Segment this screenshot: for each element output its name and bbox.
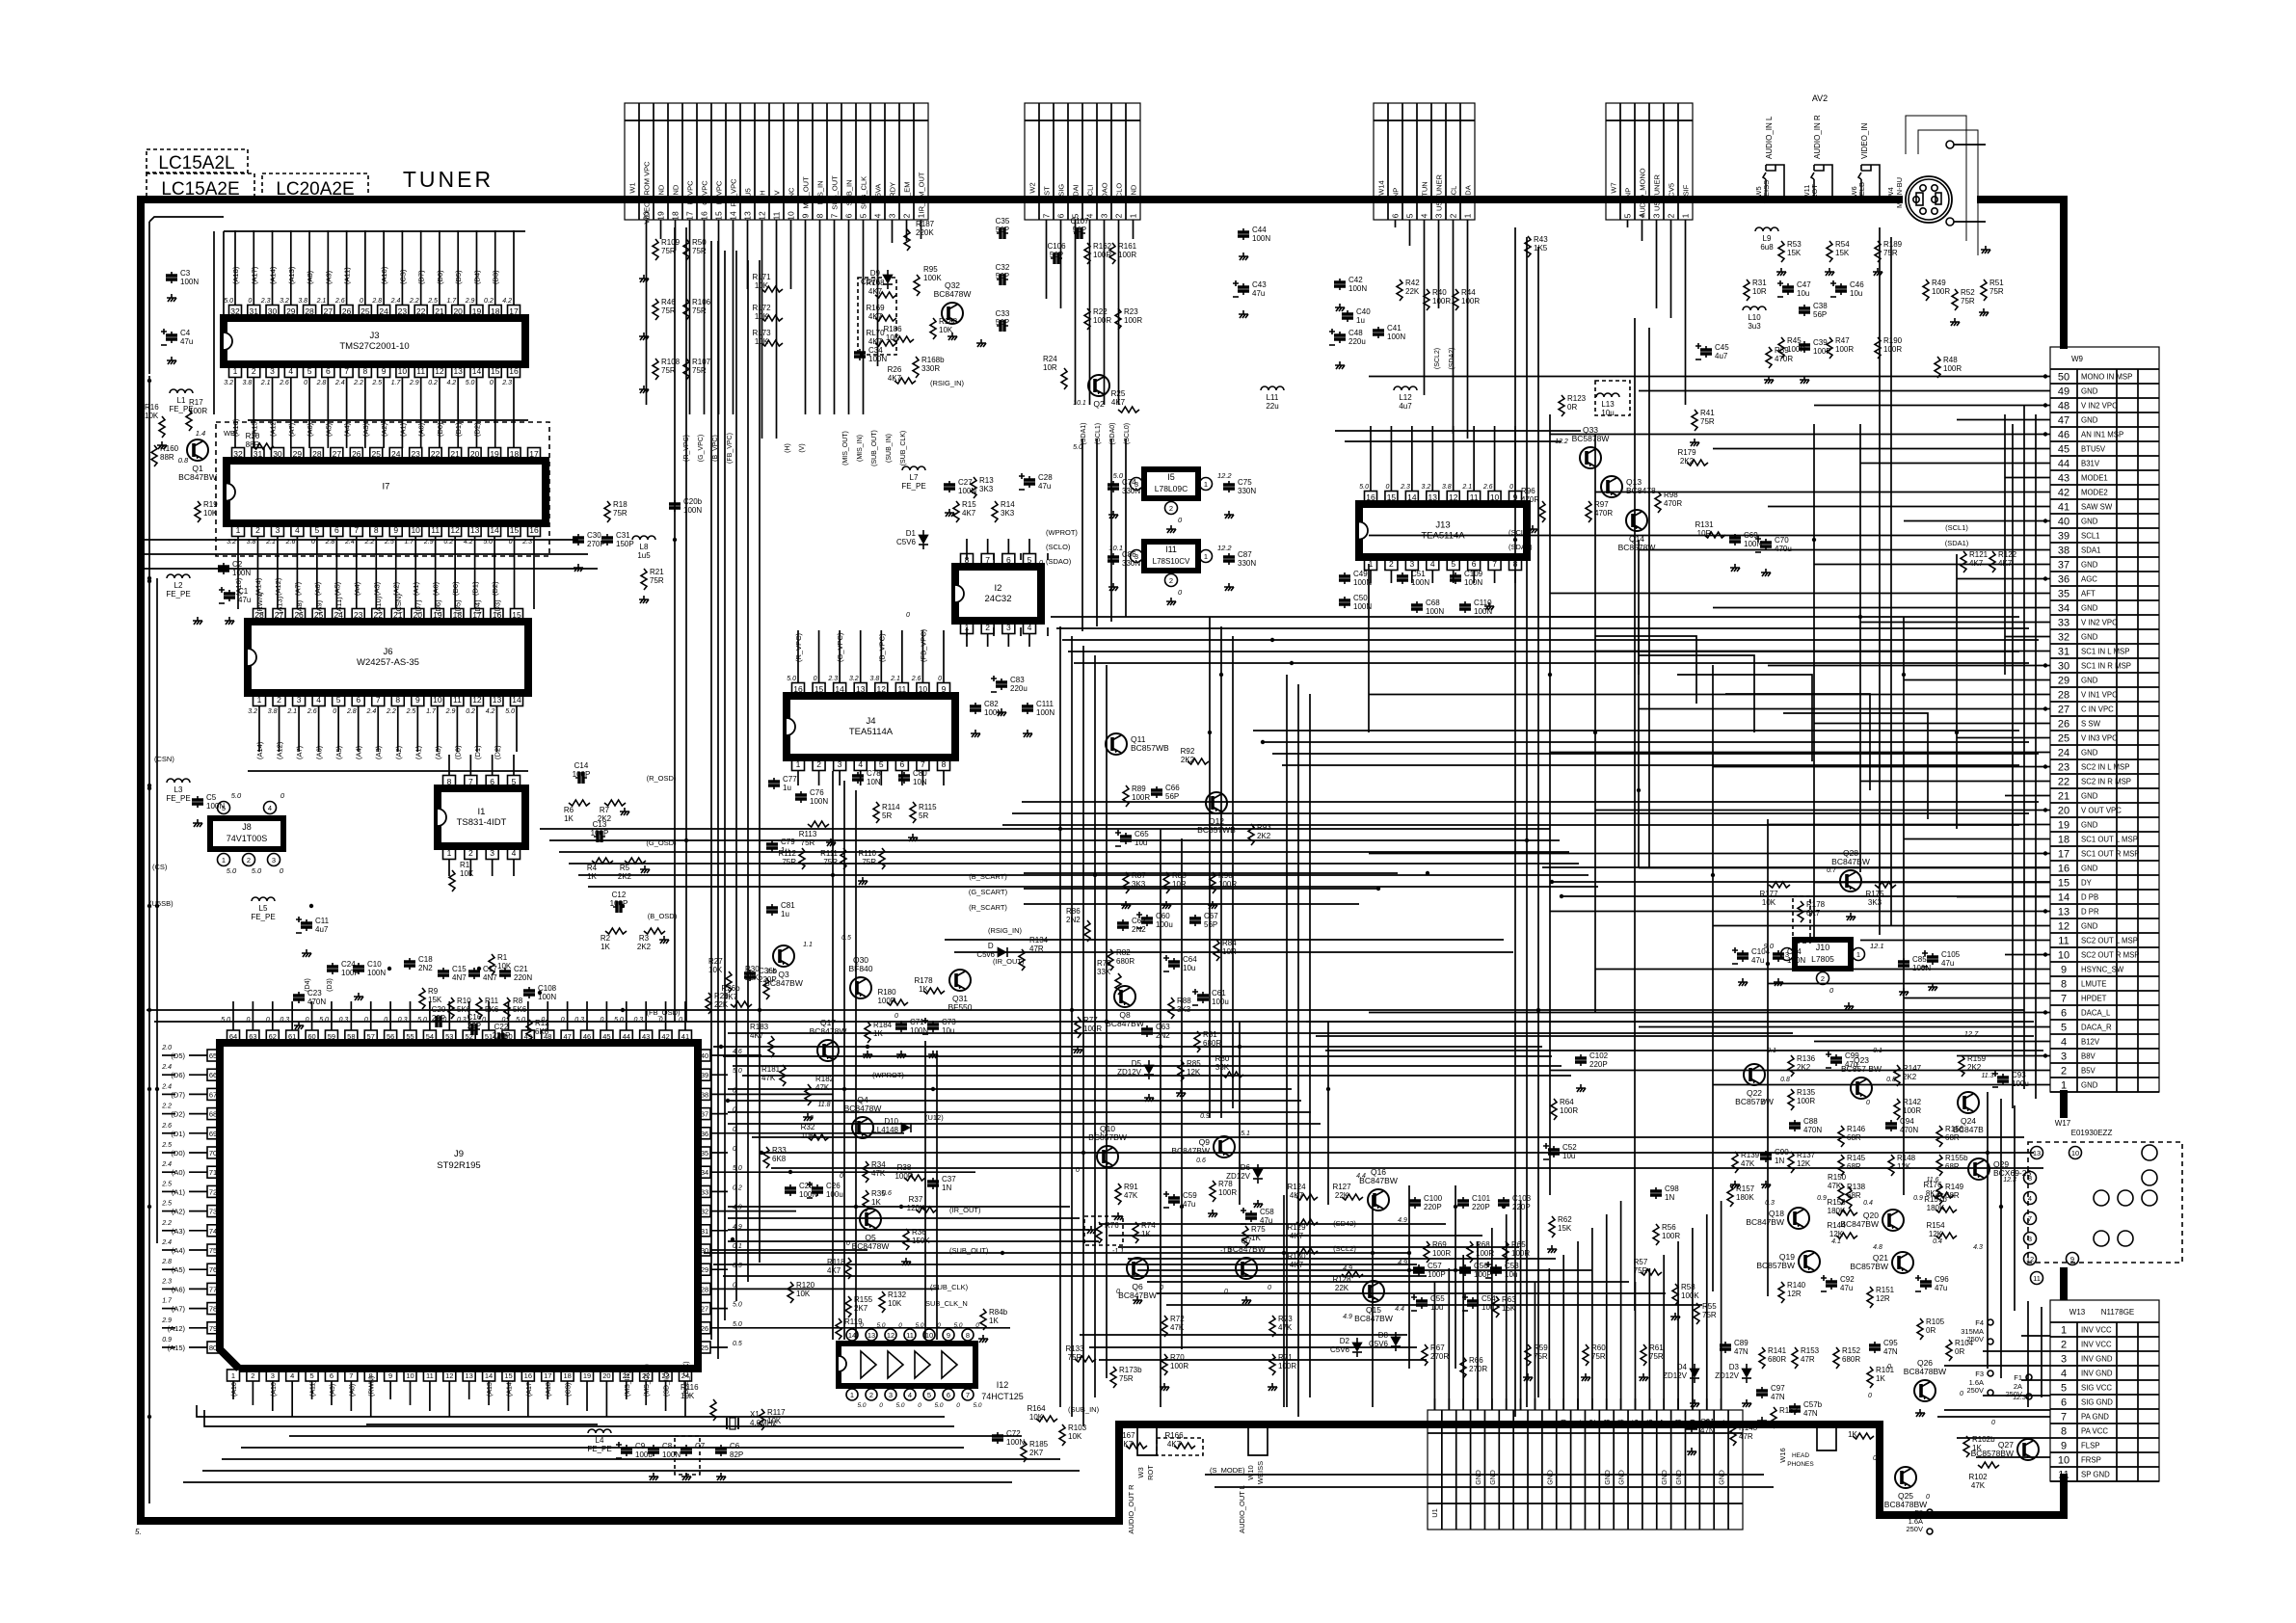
svg-text:L4: L4 <box>596 1436 604 1445</box>
capacitor C44 <box>1242 228 1244 240</box>
svg-text:R167: R167 <box>1116 1431 1135 1440</box>
svg-text:2.6: 2.6 <box>161 1123 172 1130</box>
ground <box>1950 318 1960 326</box>
ground <box>681 1473 691 1480</box>
ground <box>1176 1089 1186 1097</box>
svg-text:J9: J9 <box>454 1149 464 1159</box>
svg-text:ZD12V: ZD12V <box>1663 1371 1688 1380</box>
svg-text:4: 4 <box>1420 213 1429 218</box>
svg-text:0.9: 0.9 <box>1200 1113 1210 1120</box>
svg-text:10: 10 <box>2071 1149 2079 1157</box>
svg-text:33K: 33K <box>1215 1063 1230 1072</box>
svg-text:13: 13 <box>2033 1149 2041 1157</box>
svg-text:WEISS: WEISS <box>1256 1461 1265 1484</box>
svg-text:(MS_OUT): (MS_OUT) <box>644 1364 651 1397</box>
wire W13 feeds <box>1937 1416 2050 1418</box>
resistor R80 <box>1222 1072 1243 1078</box>
ground <box>639 333 649 340</box>
svg-text:R21: R21 <box>650 568 664 576</box>
resistor R42 <box>1397 279 1402 301</box>
ground <box>1730 564 1740 572</box>
svg-text:100R: 100R <box>1432 1249 1451 1258</box>
svg-text:4: 4 <box>290 1371 294 1380</box>
svg-text:2.8: 2.8 <box>346 708 357 715</box>
capacitor C111 <box>1027 703 1028 714</box>
svg-text:10u: 10u <box>1797 289 1809 298</box>
capacitor C36b <box>749 970 751 981</box>
svg-text:WEISS: WEISS <box>1762 180 1771 203</box>
svg-text:32: 32 <box>2058 632 2069 644</box>
transistor Q5 <box>860 1209 881 1230</box>
connector W7 <box>1606 103 1693 220</box>
svg-text:11: 11 <box>416 366 425 376</box>
resistor R145 <box>1838 1155 1844 1176</box>
svg-text:10K: 10K <box>888 1299 902 1308</box>
svg-text:(A13): (A13) <box>487 1380 494 1397</box>
svg-text:5.0: 5.0 <box>1359 484 1369 491</box>
resistor R146 <box>1838 1126 1844 1147</box>
resistor R147 <box>1894 1065 1900 1086</box>
svg-text:53: 53 <box>445 1032 453 1041</box>
svg-text:17: 17 <box>529 449 539 459</box>
capacitor C77 <box>773 778 775 789</box>
svg-text:100u: 100u <box>826 1190 843 1199</box>
IC I5 L78L09C <box>1144 469 1198 498</box>
inductor L3 <box>167 779 190 783</box>
svg-text:C59: C59 <box>1183 1191 1197 1200</box>
svg-text:2K2: 2K2 <box>637 943 652 951</box>
svg-text:GND: GND <box>2081 387 2098 396</box>
svg-text:(A7): (A7) <box>295 745 304 759</box>
svg-text:(SDA1): (SDA1) <box>1508 543 1533 551</box>
ground <box>1023 730 1032 737</box>
svg-text:26: 26 <box>701 1324 708 1333</box>
svg-text:MRDY: MRDY <box>889 182 897 203</box>
svg-text:2: 2 <box>2061 1066 2067 1078</box>
svg-text:SUB_OUT: SUB_OUT <box>831 175 840 210</box>
svg-text:GND: GND <box>672 184 681 200</box>
svg-text:0.5: 0.5 <box>733 1341 742 1347</box>
transistor Q33 <box>1580 447 1601 468</box>
svg-text:C12: C12 <box>612 891 627 899</box>
capacitor C65 <box>1125 833 1127 844</box>
svg-text:34: 34 <box>701 1168 708 1177</box>
resistor R30 <box>763 978 769 999</box>
wire center lattice verticals <box>1239 1022 1241 1205</box>
capacitor C80 <box>903 772 905 784</box>
svg-text:I12: I12 <box>997 1380 1009 1390</box>
svg-text:C94: C94 <box>1900 1117 1914 1126</box>
svg-text:36: 36 <box>701 1130 708 1138</box>
svg-text:GND: GND <box>2081 922 2098 931</box>
svg-text:2K2: 2K2 <box>618 872 632 881</box>
svg-text:5: 5 <box>1623 213 1633 218</box>
svg-text:16: 16 <box>1645 1419 1654 1427</box>
capacitor C50 <box>1344 597 1346 608</box>
capacitor C16 <box>468 1028 480 1030</box>
svg-text:(A12): (A12) <box>274 577 282 596</box>
svg-text:0: 0 <box>1386 484 1390 491</box>
svg-text:100N: 100N <box>1411 578 1429 587</box>
svg-text:C57b: C57b <box>1803 1400 1823 1409</box>
resistor R167 <box>1126 1443 1147 1449</box>
svg-text:R113: R113 <box>799 830 817 838</box>
svg-text:(A4): (A4) <box>355 745 363 759</box>
ground <box>1915 1409 1925 1417</box>
svg-text:24: 24 <box>391 449 401 459</box>
capacitor C87 <box>1228 553 1230 565</box>
capacitor C56 <box>1464 1264 1466 1276</box>
resistor R157 <box>1727 1185 1733 1207</box>
svg-text:75R: 75R <box>661 306 676 315</box>
svg-text:72: 72 <box>209 1187 217 1196</box>
svg-text:78: 78 <box>209 1305 217 1314</box>
svg-text:39: 39 <box>2058 531 2069 543</box>
svg-text:(D3): (D3) <box>327 978 334 992</box>
svg-text:65: 65 <box>209 1051 217 1060</box>
svg-text:R62: R62 <box>1558 1215 1572 1224</box>
resistor R185 <box>1021 1441 1027 1462</box>
svg-text:2: 2 <box>468 848 473 858</box>
svg-text:4K7: 4K7 <box>1969 559 1984 568</box>
svg-text:75R: 75R <box>613 509 627 518</box>
capacitor C1 <box>228 590 230 601</box>
svg-text:82P: 82P <box>730 1450 743 1459</box>
svg-text:R1: R1 <box>460 861 470 869</box>
capacitor C84 <box>1777 950 1779 962</box>
svg-text:(A14): (A14) <box>255 741 264 759</box>
svg-text:R155: R155 <box>854 1295 873 1304</box>
svg-text:1.7: 1.7 <box>162 1298 173 1305</box>
svg-text:G_VPC: G_VPC <box>701 180 709 205</box>
resistor R79 <box>1115 973 1121 995</box>
svg-text:MODE1: MODE1 <box>2081 474 2108 483</box>
svg-text:PHONES: PHONES <box>1787 1461 1814 1468</box>
svg-text:73: 73 <box>209 1208 217 1216</box>
svg-text:(RWN): (RWN) <box>255 592 264 614</box>
svg-text:D: D <box>988 942 995 950</box>
svg-text:BF840: BF840 <box>848 964 872 973</box>
svg-text:AFT: AFT <box>2081 590 2096 599</box>
capacitor C10 <box>358 963 360 974</box>
svg-text:47: 47 <box>2058 415 2069 427</box>
resistor R178 <box>1798 901 1803 922</box>
svg-text:(SCL1): (SCL1) <box>1945 523 1968 532</box>
resistor R117 <box>759 1409 764 1430</box>
svg-text:R46: R46 <box>661 298 676 306</box>
resistor R143 <box>1730 1424 1736 1446</box>
ground <box>639 596 649 603</box>
svg-text:C32: C32 <box>996 263 1010 272</box>
ground <box>1528 525 1537 533</box>
resistor R154 <box>1936 1233 1957 1238</box>
svg-text:C34: C34 <box>868 346 883 355</box>
svg-text:2.6: 2.6 <box>307 708 317 715</box>
svg-text:R105: R105 <box>1926 1317 1945 1326</box>
svg-text:2.3: 2.3 <box>827 676 838 682</box>
capacitor C68 <box>1416 601 1418 613</box>
svg-text:BC857WB: BC857WB <box>1197 825 1236 835</box>
svg-text:R67: R67 <box>1430 1344 1445 1352</box>
resistor R180 <box>887 999 908 1005</box>
transistor Q8 <box>1114 986 1135 1007</box>
svg-text:50: 50 <box>2058 372 2069 384</box>
resistor R43 <box>1525 236 1531 257</box>
svg-text:0: 0 <box>975 620 979 626</box>
svg-text:6: 6 <box>490 777 494 786</box>
svg-text:SIG GND: SIG GND <box>2081 1398 2113 1407</box>
svg-text:J4: J4 <box>866 716 875 727</box>
svg-text:1: 1 <box>447 848 452 858</box>
resistor R26 <box>894 378 916 384</box>
resistor R6 <box>569 800 590 806</box>
svg-text:75R: 75R <box>1702 1311 1717 1319</box>
ground <box>1844 1002 1854 1010</box>
resistor R11 <box>476 998 482 1019</box>
svg-text:1K: 1K <box>1972 1444 1982 1452</box>
svg-text:C16: C16 <box>467 1013 482 1022</box>
svg-text:R119: R119 <box>844 1317 863 1326</box>
svg-text:47u: 47u <box>1935 1284 1947 1292</box>
capacitor C51 <box>1402 572 1403 584</box>
svg-text:HPDET: HPDET <box>2081 995 2107 1003</box>
svg-text:2K2: 2K2 <box>1257 832 1271 840</box>
svg-text:3K3: 3K3 <box>1001 509 1015 518</box>
ground <box>1757 1417 1767 1424</box>
svg-text:12: 12 <box>2026 1255 2034 1264</box>
svg-text:SAW SW: SAW SW <box>2081 503 2113 512</box>
svg-text:4K7: 4K7 <box>1167 1440 1182 1449</box>
svg-text:0.8: 0.8 <box>178 456 189 465</box>
svg-text:21: 21 <box>1718 1419 1726 1427</box>
svg-text:47u: 47u <box>1038 482 1051 491</box>
svg-text:5.0: 5.0 <box>895 1402 904 1409</box>
svg-text:75R: 75R <box>661 366 676 375</box>
diode D10 <box>901 1123 910 1132</box>
svg-text:0: 0 <box>304 380 307 386</box>
resistor R105 <box>1917 1318 1923 1340</box>
svg-text:R141: R141 <box>1768 1346 1787 1355</box>
svg-text:SC2 IN R MSP: SC2 IN R MSP <box>2081 778 2131 786</box>
svg-text:FE_PE: FE_PE <box>251 913 275 921</box>
svg-text:L13: L13 <box>1601 400 1615 409</box>
svg-text:10K: 10K <box>681 1392 695 1400</box>
svg-text:FB_VPC: FB_VPC <box>730 178 738 207</box>
ground <box>976 339 986 347</box>
svg-text:47K: 47K <box>1971 1481 1986 1490</box>
resistor R75 <box>1242 1226 1248 1247</box>
svg-text:C109: C109 <box>1464 570 1483 578</box>
diode D2 <box>1352 1343 1362 1351</box>
resistor R177 <box>1769 882 1790 888</box>
capacitor C75 <box>1228 481 1230 492</box>
resistor R102 <box>1978 1462 1999 1468</box>
svg-text:12.3: 12.3 <box>2003 1177 2016 1184</box>
svg-text:47K: 47K <box>1278 1323 1293 1332</box>
svg-text:1.7: 1.7 <box>446 298 457 305</box>
capacitor C98 <box>1655 1187 1657 1199</box>
svg-text:0: 0 <box>1116 1289 1120 1295</box>
svg-text:3.2: 3.2 <box>1422 484 1431 491</box>
svg-text:12: 12 <box>450 525 460 535</box>
svg-text:R45: R45 <box>1787 336 1802 345</box>
svg-text:(SDA1): (SDA1) <box>1081 423 1087 445</box>
svg-text:3: 3 <box>1006 623 1011 632</box>
svg-text:16: 16 <box>700 211 709 221</box>
svg-text:C49: C49 <box>1353 570 1368 578</box>
resistor R47 <box>1827 337 1832 359</box>
svg-text:W3: W3 <box>1136 1467 1145 1477</box>
resistor R118 <box>845 1258 851 1279</box>
svg-text:(CSN): (CSN) <box>394 594 403 614</box>
svg-text:(A8): (A8) <box>295 599 304 614</box>
IC I11 L78S10CV <box>1144 542 1198 571</box>
svg-text:10K: 10K <box>796 1290 811 1298</box>
svg-text:V: V <box>773 190 782 195</box>
svg-text:10: 10 <box>925 1331 933 1340</box>
svg-text:C105: C105 <box>1941 950 1961 959</box>
svg-text:4: 4 <box>2061 1037 2067 1049</box>
svg-text:(B_SCART): (B_SCART) <box>969 872 1007 881</box>
resistor R136 <box>1788 1055 1794 1077</box>
ground <box>978 1335 988 1343</box>
svg-text:C22: C22 <box>494 1023 509 1031</box>
svg-text:13: 13 <box>493 695 502 705</box>
svg-text:BC8478BW: BC8478BW <box>1904 1367 1946 1376</box>
svg-text:69: 69 <box>209 1130 217 1138</box>
svg-text:0.9: 0.9 <box>1913 1195 1923 1202</box>
IC J3 TMS27C2001-10 <box>224 318 525 364</box>
resistor R9 <box>419 988 425 1009</box>
svg-text:22K: 22K <box>1405 287 1420 296</box>
svg-text:AGC: AGC <box>2081 575 2097 584</box>
svg-text:3: 3 <box>2061 1051 2067 1063</box>
svg-text:1u: 1u <box>781 910 789 918</box>
svg-text:75: 75 <box>209 1246 217 1255</box>
svg-text:150P: 150P <box>616 540 634 548</box>
svg-text:(A16): (A16) <box>231 1380 238 1397</box>
svg-text:0.3: 0.3 <box>398 1017 408 1024</box>
svg-text:11: 11 <box>431 525 440 535</box>
svg-text:470N: 470N <box>1900 1126 1918 1134</box>
svg-text:26: 26 <box>352 449 361 459</box>
svg-text:220P: 220P <box>1424 1203 1442 1211</box>
svg-text:56P: 56P <box>996 272 1009 280</box>
svg-text:5.0: 5.0 <box>231 791 242 800</box>
svg-text:(V): (V) <box>799 443 806 452</box>
svg-text:0: 0 <box>918 1402 921 1409</box>
svg-text:12K: 12K <box>1929 1230 1943 1238</box>
svg-text:R178: R178 <box>1806 900 1826 909</box>
ground <box>1335 361 1345 369</box>
svg-text:4K7: 4K7 <box>1290 1191 1304 1200</box>
svg-text:12: 12 <box>435 366 444 376</box>
svg-text:R47: R47 <box>1835 336 1850 345</box>
svg-text:SIG VCC: SIG VCC <box>2081 1384 2112 1393</box>
svg-text:GND: GND <box>2081 518 2098 526</box>
svg-text:0: 0 <box>1039 560 1043 567</box>
svg-text:100R: 100R <box>877 997 895 1005</box>
svg-text:16: 16 <box>529 525 539 535</box>
resistor R164 <box>1036 1416 1057 1422</box>
svg-text:41: 41 <box>681 1032 689 1041</box>
svg-text:L7805: L7805 <box>1811 954 1834 964</box>
svg-text:220P: 220P <box>1589 1060 1608 1069</box>
svg-text:2.4: 2.4 <box>161 1161 172 1168</box>
svg-text:LC20A2E: LC20A2E <box>276 179 354 200</box>
svg-text:1: 1 <box>1129 213 1138 218</box>
svg-text:0: 0 <box>246 1017 250 1024</box>
svg-text:4K7: 4K7 <box>868 337 883 346</box>
svg-text:12.1: 12.1 <box>1870 942 1884 950</box>
svg-text:C1: C1 <box>238 587 249 596</box>
svg-text:FE_PE: FE_PE <box>166 794 190 803</box>
svg-text:0: 0 <box>956 1402 960 1409</box>
svg-text:8: 8 <box>374 525 379 535</box>
transistor Q28 <box>1840 870 1861 891</box>
svg-text:C66: C66 <box>1165 784 1180 792</box>
svg-text:7: 7 <box>354 525 359 535</box>
svg-text:R88: R88 <box>1177 997 1191 1005</box>
svg-text:100R: 100R <box>189 407 207 415</box>
ground <box>1108 511 1118 519</box>
svg-text:2.6: 2.6 <box>334 298 345 305</box>
svg-text:C89: C89 <box>1734 1339 1749 1347</box>
svg-text:R135: R135 <box>1797 1088 1816 1097</box>
svg-text:10K: 10K <box>1029 1413 1044 1422</box>
svg-text:470N: 470N <box>307 998 326 1006</box>
svg-text:-1.1: -1.1 <box>1112 1248 1124 1255</box>
resistor R45 <box>1778 337 1784 359</box>
svg-text:28: 28 <box>305 306 314 316</box>
svg-text:5.0: 5.0 <box>973 1402 981 1409</box>
capacitor C27 <box>948 481 950 492</box>
svg-text:74: 74 <box>209 1227 217 1236</box>
svg-text:B5V: B5V <box>2081 1067 2096 1076</box>
svg-text:D3: D3 <box>1729 1363 1740 1371</box>
svg-text:31: 31 <box>254 449 263 459</box>
svg-text:46: 46 <box>2058 430 2069 441</box>
svg-text:11: 11 <box>2058 1470 2069 1481</box>
ground <box>620 808 629 815</box>
svg-text:C54: C54 <box>1482 1294 1496 1303</box>
ground <box>858 877 868 885</box>
svg-text:BC857 BW: BC857 BW <box>1841 1064 1882 1074</box>
svg-text:(SCL2): (SCL2) <box>1333 1244 1356 1253</box>
resistor R176 <box>1933 1192 1954 1198</box>
svg-text:(A4): (A4) <box>353 581 361 596</box>
transistor Q25 <box>1895 1467 1916 1488</box>
transistor Q13 <box>1601 476 1622 497</box>
resistor R50 <box>683 239 689 260</box>
svg-text:56P: 56P <box>996 318 1009 327</box>
svg-text:68R: 68R <box>1945 1191 1960 1200</box>
svg-text:C8: C8 <box>662 1442 673 1450</box>
svg-text:75R: 75R <box>1989 287 2004 296</box>
svg-text:(SDA0): (SDA0) <box>1109 423 1116 445</box>
wire W2 pin drops <box>1081 439 1083 631</box>
svg-text:R23: R23 <box>1124 307 1138 316</box>
svg-text:6K8: 6K8 <box>535 1027 549 1036</box>
ground <box>908 834 918 841</box>
svg-text:4N7: 4N7 <box>483 973 497 982</box>
svg-text:(SDA2): (SDA2) <box>1449 348 1455 370</box>
diode D5 <box>1144 1065 1154 1074</box>
svg-text:R160: R160 <box>160 444 179 453</box>
svg-text:3: 3 <box>1459 1421 1468 1425</box>
svg-text:0: 0 <box>248 298 252 305</box>
svg-text:R12: R12 <box>535 1019 549 1027</box>
